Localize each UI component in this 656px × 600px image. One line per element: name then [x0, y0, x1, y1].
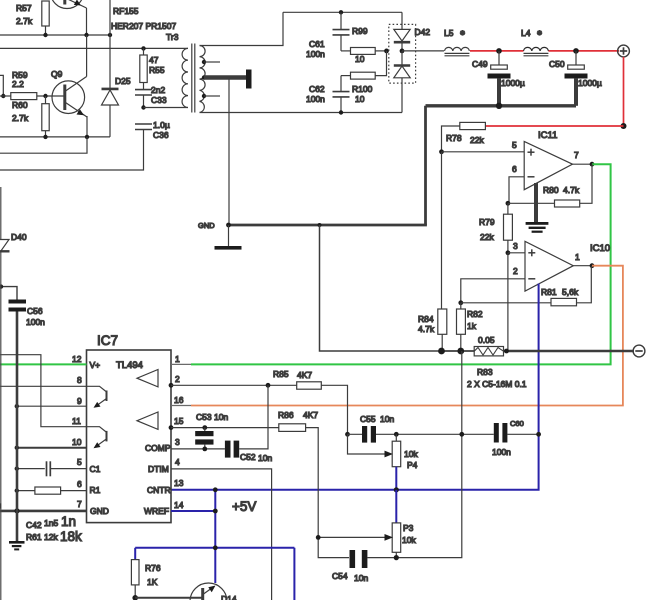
node C50 top	[573, 48, 579, 54]
wire Q9 collector up	[86, 35, 88, 77]
wire IC11 pin6	[509, 177, 524, 204]
node P3 bottom	[394, 555, 399, 560]
capacitor C54	[332, 550, 368, 583]
resistor R99	[341, 26, 387, 64]
transistor Q14 (cut off, label D14)	[190, 583, 237, 600]
node pin14 branch	[213, 509, 218, 514]
svg-text:12k: 12k	[44, 532, 58, 542]
svg-text:100n: 100n	[492, 447, 511, 457]
svg-text:IC7: IC7	[97, 333, 118, 348]
svg-text:2n2: 2n2	[151, 85, 165, 95]
capacitor C55	[360, 414, 394, 443]
wire C55 node to C60	[396, 433, 494, 435]
wire GND to sense rail	[320, 225, 441, 351]
node rectifier output	[384, 49, 389, 54]
wire pin2 to R85	[171, 384, 297, 386]
svg-text:1: 1	[575, 252, 580, 262]
potentiometer P3	[392, 523, 416, 552]
inductor L4	[521, 28, 548, 56]
svg-text:4K7: 4K7	[297, 370, 312, 380]
wire pin1 stub	[171, 363, 191, 365]
svg-text:C49: C49	[472, 59, 488, 69]
wire IC11 output	[573, 163, 593, 165]
svg-text:1k: 1k	[467, 321, 477, 331]
svg-text:D42: D42	[415, 27, 431, 37]
svg-text:C50: C50	[549, 59, 565, 69]
svg-text:22k: 22k	[480, 232, 494, 242]
IC7 internal transistor 1	[87, 386, 107, 408]
capacitor C53	[195, 412, 228, 449]
node C53 bottom	[202, 447, 207, 452]
svg-text:R61: R61	[26, 532, 42, 542]
svg-text:TL494: TL494	[116, 360, 143, 371]
svg-text:12: 12	[72, 354, 82, 364]
diode D40 (cut off)	[0, 232, 27, 251]
capacitor C36	[135, 120, 170, 140]
wire rail y=48.4 to transformer primary	[0, 47, 188, 49]
capacitor C61	[306, 12, 350, 59]
node pin2/R85	[266, 383, 271, 388]
label R61 values	[26, 529, 82, 544]
node C55 left	[345, 432, 350, 437]
node IC11 output	[590, 162, 595, 167]
node center tap	[202, 75, 206, 79]
resistor R82	[457, 303, 483, 351]
terminal - output	[633, 345, 645, 357]
diode D25	[102, 35, 131, 137]
wire C60 right to blue	[507, 433, 538, 435]
node IC7 pin15 on box edge	[169, 425, 174, 430]
svg-text:R55: R55	[149, 65, 165, 75]
IC U7 TL494 box	[87, 333, 172, 523]
svg-text:C1: C1	[90, 464, 101, 474]
svg-text:R85: R85	[273, 369, 289, 379]
wire sense rail left segment	[441, 350, 475, 352]
svg-text:4.7k: 4.7k	[563, 185, 580, 195]
wire P3 top blue	[395, 490, 397, 523]
transformer Tr3 secondary winding	[200, 46, 206, 113]
resistor R61 on pin6	[17, 487, 87, 494]
node R82 top	[458, 300, 463, 305]
wire pin11	[0, 355, 87, 427]
svg-text:6: 6	[512, 164, 517, 174]
node red corner	[621, 123, 627, 129]
node sense rail branch	[318, 223, 322, 227]
potentiometer P4	[392, 434, 418, 470]
wire pin14 WREF blue	[171, 510, 215, 512]
node blue crossing	[213, 545, 218, 550]
node Q10 emitter	[84, 33, 88, 37]
wire secondary bottom rail	[200, 112, 403, 114]
svg-text:RF155: RF155	[113, 6, 139, 16]
node pin9	[15, 404, 19, 408]
node C55 right / P4 top	[394, 432, 399, 437]
node tap upper	[202, 60, 206, 64]
svg-text:1: 1	[175, 354, 180, 364]
resistor R81	[461, 266, 592, 306]
wire R84 long vertical	[441, 152, 443, 309]
svg-text:1.0µ: 1.0µ	[153, 120, 170, 130]
svg-text:8: 8	[77, 375, 82, 385]
wire blue IC10 power down and bus to IC7 pin13	[171, 284, 539, 490]
wire top rail y=35	[0, 34, 110, 36]
svg-text:IC10: IC10	[590, 243, 610, 254]
ground symbol (bar)	[215, 225, 242, 250]
svg-text:C61: C61	[309, 39, 325, 49]
svg-text:C53: C53	[196, 412, 212, 422]
shunt resistor R83	[467, 335, 527, 389]
svg-text:10k: 10k	[402, 535, 416, 545]
svg-text:COMP: COMP	[145, 443, 171, 453]
svg-text:C33: C33	[151, 95, 167, 105]
svg-text:C55: C55	[360, 414, 376, 424]
op-amp IC11	[512, 130, 579, 190]
wire red to R78	[485, 125, 623, 127]
svg-text:1n5: 1n5	[44, 518, 58, 528]
wire IC10 output	[573, 265, 592, 267]
terminal + output	[618, 45, 630, 57]
wire +V red rail	[470, 50, 619, 52]
wire pin3 COMP	[171, 448, 225, 450]
svg-text:7: 7	[574, 150, 579, 160]
resistor R78	[442, 122, 486, 151]
svg-text:5: 5	[512, 140, 517, 150]
wire R85 right down to C55	[321, 385, 347, 434]
wire IC10 pin3	[508, 252, 525, 254]
svg-text:V+: V+	[90, 360, 101, 370]
node R79 top	[506, 201, 511, 206]
svg-text:15: 15	[174, 416, 184, 426]
capacitor C60	[494, 423, 508, 443]
wire Q9 emitter down	[86, 116, 88, 137]
node C61 top	[339, 10, 343, 14]
wire green V+ pin12	[0, 363, 87, 365]
wire vertical x=110 top	[109, 0, 111, 35]
node GND rail left	[226, 223, 231, 228]
wire P3 wiper feed with arrow	[318, 536, 386, 538]
wire P4 bottom blue	[395, 467, 397, 490]
svg-text:3: 3	[513, 241, 518, 251]
wire R86 right down	[306, 428, 349, 558]
node C56 branch on left vertical	[0, 284, 3, 288]
node D42 common	[400, 49, 405, 54]
svg-text:GND: GND	[90, 506, 109, 516]
capacitor C52	[225, 441, 273, 463]
IC11 ground pin thick	[534, 183, 538, 222]
resistor R55	[140, 48, 165, 82]
svg-text:10k: 10k	[404, 449, 418, 459]
wire secondary top lead	[200, 12, 284, 45]
svg-text:R80: R80	[543, 185, 559, 195]
svg-text:R60: R60	[12, 100, 28, 110]
node R60 bottom	[43, 135, 47, 139]
wire GND rail y=225	[228, 224, 427, 227]
resistor R60	[12, 96, 49, 137]
node pin13 branch	[213, 487, 218, 492]
svg-text:10n: 10n	[258, 453, 272, 463]
wire tap stub lower	[204, 95, 220, 97]
node C60 left vertical crossing	[459, 432, 464, 437]
wire blue vertical to Q14	[214, 490, 216, 583]
node primary snubber	[141, 46, 145, 50]
capacitor C42 on pin5	[17, 461, 87, 476]
svg-text:C36: C36	[153, 130, 169, 140]
svg-text:+5V: +5V	[232, 499, 256, 514]
wire IC10 pin2	[461, 279, 525, 303]
node C49 top	[496, 48, 502, 54]
svg-text:4K7: 4K7	[303, 410, 318, 420]
wire pin4 DTIM down	[171, 469, 272, 600]
svg-text:WREF: WREF	[144, 506, 169, 516]
wire tap stub upper	[204, 61, 220, 63]
node pin7	[14, 508, 19, 513]
node R76 bottom	[132, 595, 138, 600]
node C60 right	[536, 432, 541, 437]
svg-text:P3: P3	[403, 523, 414, 533]
resistor R100	[341, 51, 387, 104]
svg-text:Tr3: Tr3	[166, 32, 179, 42]
svg-text:100n: 100n	[306, 94, 325, 104]
node bus C49	[496, 103, 502, 109]
svg-text:CNTR: CNTR	[147, 485, 171, 495]
svg-text:D40: D40	[11, 232, 27, 242]
wire pin15 to R86	[171, 427, 279, 429]
svg-text:R76: R76	[145, 563, 161, 573]
node pin10	[15, 446, 19, 450]
svg-text:✱: ✱	[537, 30, 542, 37]
svg-text:14: 14	[174, 500, 184, 510]
node C53 top	[202, 425, 207, 430]
capacitor C50 (electrolytic)	[549, 51, 602, 106]
ground symbol IC11	[526, 222, 549, 233]
wire branch y=153.2	[0, 137, 87, 153]
wire pin10	[17, 447, 87, 449]
svg-text:2.7k: 2.7k	[16, 16, 33, 26]
svg-text:R81: R81	[541, 287, 557, 297]
resistor R80	[508, 164, 592, 207]
wire blue +5 branch to R76	[135, 548, 294, 600]
svg-text:9: 9	[77, 396, 82, 406]
svg-text:R100: R100	[352, 84, 373, 94]
svg-text:GND: GND	[198, 221, 215, 230]
svg-text:4: 4	[175, 457, 180, 467]
svg-text:C42: C42	[26, 520, 42, 530]
svg-text:C56: C56	[27, 306, 43, 316]
svg-text:2 X C5-16M 0.1: 2 X C5-16M 0.1	[467, 379, 527, 389]
svg-text:1000µ: 1000µ	[501, 78, 525, 88]
svg-text:2: 2	[175, 374, 180, 384]
wire C54 right to P3 bottom	[367, 552, 396, 557]
svg-text:16: 16	[174, 395, 184, 405]
svg-text:5: 5	[77, 457, 82, 467]
svg-text:✱: ✱	[460, 30, 465, 37]
svg-text:10: 10	[355, 54, 365, 64]
capacitor C62	[306, 76, 350, 113]
wire left edge vertical	[0, 187, 2, 600]
wire rail y=170 (C36 return)	[0, 130, 144, 171]
capacitor C56	[1, 287, 45, 327]
svg-text:7: 7	[77, 499, 82, 509]
svg-text:11: 11	[72, 416, 81, 426]
node C62 bottom	[339, 110, 343, 114]
node R78/pin5/R84	[439, 149, 444, 154]
svg-text:C52: C52	[240, 452, 256, 462]
node Q9 base / R60 top	[43, 94, 47, 98]
svg-text:R1: R1	[90, 485, 101, 495]
dual diode D42 dotted box	[389, 24, 416, 83]
wire orange IC10 out to IC7 pin16	[191, 266, 623, 406]
node primary bottom	[141, 105, 145, 109]
node pin5	[15, 466, 19, 470]
wire C52 right up to pin2 node	[239, 385, 268, 449]
node Q9 emitter rail	[85, 135, 89, 139]
label C42 values	[26, 514, 76, 530]
terminal bar center tap	[246, 70, 252, 89]
svg-text:4.7k: 4.7k	[418, 324, 435, 334]
svg-text:R86: R86	[278, 410, 294, 420]
svg-text:HER207 PR1507: HER207 PR1507	[111, 21, 176, 31]
svg-text:R83: R83	[477, 367, 493, 377]
wire rail y=136.9	[0, 136, 110, 138]
svg-text:100n: 100n	[306, 49, 325, 59]
wire primary bottom lead	[144, 107, 189, 109]
ground symbol IC7	[9, 541, 25, 550]
svg-text:R99: R99	[352, 26, 368, 36]
svg-text:100n: 100n	[26, 317, 45, 327]
svg-text:R78: R78	[446, 133, 462, 143]
node R59 left	[1, 94, 5, 98]
node pin6	[15, 488, 19, 492]
svg-text:10: 10	[355, 94, 365, 104]
op-amp IC10	[513, 241, 610, 291]
transistor Q10 (cut off at top edge)	[51, 0, 87, 9]
svg-text:u: u	[0, 501, 1, 510]
svg-text:C62: C62	[309, 84, 325, 94]
diode D42 upper	[394, 12, 410, 51]
wire pin8	[0, 385, 87, 387]
node R84 bottom	[438, 348, 445, 355]
wire center tap thick	[204, 75, 247, 80]
resistor R79	[479, 203, 512, 253]
resistor R57	[16, 1, 49, 35]
svg-text:D25: D25	[115, 76, 131, 86]
svg-text:1n: 1n	[61, 514, 76, 529]
svg-text:3: 3	[175, 437, 180, 447]
svg-text:18k: 18k	[60, 529, 82, 544]
svg-text:10n: 10n	[214, 412, 228, 422]
svg-text:1000µ: 1000µ	[578, 78, 602, 88]
capacitor C49 (electrolytic)	[472, 51, 525, 106]
wire R59 upper branch	[0, 75, 3, 96]
svg-text:C60: C60	[510, 419, 524, 428]
wire Q10 emitter to rail	[86, 8, 88, 35]
svg-text:10: 10	[72, 437, 82, 447]
svg-text:2.2: 2.2	[12, 79, 24, 89]
wire C55 leads	[348, 433, 397, 435]
inductor L5	[444, 28, 469, 56]
wire center tap to GND rail	[228, 79, 230, 225]
wire into R59	[0, 95, 11, 97]
resistor R86	[278, 410, 318, 431]
wire green IC11 out to IC7 pin1	[191, 164, 611, 364]
wire pin16 stub	[171, 405, 191, 407]
transformer Tr3 core	[192, 44, 195, 113]
svg-text:10n: 10n	[380, 414, 394, 424]
svg-text:R82: R82	[467, 309, 483, 319]
wire pin9	[17, 405, 87, 407]
wire C56 rail vertical	[16, 312, 19, 542]
svg-text:0.05: 0.05	[478, 335, 495, 345]
node IC10 pin3	[506, 250, 511, 255]
IC7 comparator triangle 1	[137, 370, 158, 387]
wire P4 wiper feed with arrow	[348, 434, 387, 454]
node R57 bottom	[43, 33, 47, 37]
svg-text:2.7k: 2.7k	[12, 113, 29, 123]
resistor R84	[418, 309, 447, 351]
wire D42 to L5	[402, 50, 444, 52]
svg-text:2: 2	[513, 266, 518, 276]
wire thick bus C49/C50 ground	[426, 104, 577, 107]
node R82 bottom	[457, 348, 464, 355]
transformer Tr3 primary winding	[182, 48, 188, 107]
wire pin7 GND thick	[0, 510, 87, 513]
svg-text:22k: 22k	[470, 135, 484, 145]
node tap lower	[202, 94, 206, 98]
svg-text:P4: P4	[407, 460, 418, 470]
transistor Q9	[51, 69, 87, 117]
svg-text:R79: R79	[479, 217, 495, 227]
svg-text:5,6k: 5,6k	[562, 287, 579, 297]
wire secondary top rail y=12.3	[283, 11, 402, 13]
svg-text:D14: D14	[221, 594, 237, 600]
node D25 top	[108, 33, 112, 37]
wire sense rail right segment	[504, 350, 635, 353]
IC7 internal transistor 2	[87, 427, 107, 449]
svg-text:R57: R57	[16, 3, 32, 13]
svg-text:6: 6	[77, 479, 82, 489]
wire IC11 pin5	[442, 151, 525, 153]
svg-text:L4: L4	[521, 28, 531, 38]
node IC7 pin2 on box edge	[169, 383, 174, 388]
wire R59 to Q9 base	[37, 95, 64, 97]
svg-text:13: 13	[174, 478, 184, 488]
svg-text:R84: R84	[418, 314, 434, 324]
svg-text:IC11: IC11	[538, 130, 557, 141]
svg-text:DTIM: DTIM	[148, 464, 169, 474]
wire red + terminal down	[623, 57, 625, 126]
IC7 comparator triangle 2	[137, 412, 158, 429]
wire R79 node to sense rail	[507, 253, 509, 351]
diode D42 lower	[394, 51, 410, 113]
resistor R59	[11, 70, 37, 100]
svg-text:C54: C54	[332, 571, 348, 581]
svg-text:1K: 1K	[147, 577, 158, 587]
node sense rail R79 branch	[504, 349, 509, 354]
wire R82 node long vertical down	[396, 351, 462, 558]
resistor R85	[273, 369, 321, 389]
svg-text:47: 47	[149, 55, 159, 65]
resistor R76	[131, 548, 160, 598]
wire Q14 base	[135, 597, 201, 599]
svg-text:Q9: Q9	[51, 69, 63, 79]
svg-text:10n: 10n	[354, 573, 368, 583]
svg-text:L5: L5	[444, 28, 454, 38]
capacitor C33	[135, 83, 167, 108]
node blue bus P4/P3	[394, 487, 399, 492]
node R86 vertical / wiper	[316, 535, 321, 540]
node IC10 output	[590, 263, 595, 268]
